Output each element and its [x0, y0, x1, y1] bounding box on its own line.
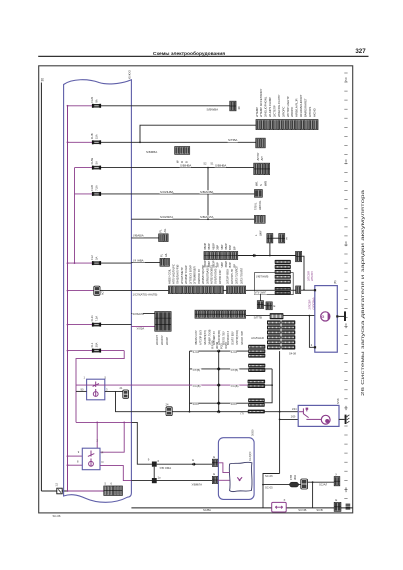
svg-text:А/СНD: А/СНD: [312, 108, 316, 117]
connector row1 end: [230, 101, 236, 111]
svg-text:У/ВМЛА: У/ВМЛА: [192, 483, 203, 487]
ignition internal wires: [218, 463, 230, 481]
svg-text:РОЛ: РОЛ: [220, 343, 224, 349]
fuse FL/В 7,5А wire: [75, 193, 97, 195]
svg-text:2/ТЕМР: 2/ТЕМР: [255, 107, 259, 117]
black code box row290: [275, 287, 291, 291]
svg-text:У/С(В): У/С(В): [231, 384, 239, 388]
svg-text:S-СА: S-СА: [231, 350, 238, 354]
svg-text:FL/R: FL/R: [90, 97, 94, 103]
svg-text:S/ОЛ: S/ОЛ: [231, 402, 238, 406]
fuse FL2 5А wire: [68, 262, 97, 264]
drop to ground bus: [312, 482, 314, 508]
svg-text:SС-06: SС-06: [265, 474, 273, 478]
pin on mid wire: [252, 254, 256, 257]
pin row У/С(В): [217, 383, 221, 386]
svg-text:30: 30: [41, 78, 45, 82]
wire ground feed bottom-left: [41, 490, 103, 492]
svg-text:9А: 9А: [94, 99, 98, 102]
wire row6 U/VABIA: [131, 237, 158, 239]
header rule: [38, 55, 368, 57]
unit outline box: [255, 273, 294, 295]
svg-text:Е: Е: [286, 236, 288, 240]
wire starter solenoid line: [131, 411, 298, 413]
connector after fuse: [301, 479, 308, 489]
svg-text:1/СЛI(АТО)-АА(ГВ): 1/СЛI(АТО)-АА(ГВ): [133, 292, 158, 296]
svg-text:2/ПСВЛ: 2/ПСВЛ: [310, 271, 314, 281]
svg-text:Е: Е: [213, 472, 215, 476]
svg-text:SС/ВА: SС/ВА: [203, 508, 211, 512]
svg-text:ЗВОР: ЗВОР: [203, 243, 207, 250]
svg-text:S/ВIНВА: S/ВIНВА: [180, 163, 191, 167]
svg-text:2/СТЕПР: 2/СТЕПР: [273, 105, 277, 117]
svg-text:У/ВАБIА: У/ВАБIА: [133, 234, 144, 238]
svg-text:SС-05: SС-05: [265, 485, 273, 489]
wire to grid lower purple: [131, 325, 154, 327]
svg-text:АIRВ/LА RLJR: АIRВ/LА RLJR: [295, 99, 299, 118]
wire generator excite drop: [309, 316, 314, 348]
secondary purple bus: [74, 168, 76, 264]
black code boxes row S-СА: [248, 345, 265, 349]
fuse FL/В 15А wire: [68, 141, 97, 143]
relay R2 box: [82, 448, 100, 470]
svg-text:S/ОZIНВА: S/ОZIНВА: [160, 190, 173, 194]
svg-text:(В): (В): [333, 280, 337, 284]
svg-text:2/НЕLIОРНОNL: 2/НЕLIОРНОNL: [264, 96, 268, 117]
svg-text:S/ТIВА: S/ТIВА: [228, 138, 237, 142]
svg-text:5А: 5А: [94, 256, 98, 259]
svg-text:R: R: [102, 451, 104, 455]
svg-text:З/НЗВЛ(ЗЛ): З/НЗВЛ(ЗЛ): [203, 330, 207, 345]
svg-text:S4-08: S4-08: [289, 352, 296, 356]
svg-text:Е: Е: [274, 304, 276, 308]
diagram frame: [39, 66, 353, 513]
svg-text:30: 30: [237, 106, 241, 110]
wire starter main feed: [280, 418, 299, 420]
connector row3 end: [254, 163, 270, 174]
connector grid mid: [155, 312, 171, 332]
fuse FL21 7,5А: [92, 323, 101, 327]
svg-text:2/СТОР LIGНТР: 2/СТОР LIGНТР: [286, 96, 290, 117]
svg-text:G: G: [321, 315, 324, 319]
fuse FL/R 9А: [92, 104, 101, 108]
accessory component ACV: [94, 286, 100, 295]
wire row2 S/TIVA: [131, 141, 256, 143]
svg-text:FL: FL: [160, 253, 164, 257]
svg-text:2/СОЛУ: 2/СОЛУ: [160, 335, 164, 345]
wire between pair E: [273, 237, 279, 239]
svg-text:2/RОРС: 2/RОРС: [281, 107, 285, 117]
svg-text:SС/ЧБ: SС/ЧБ: [298, 508, 306, 512]
svg-text:А/L: А/L: [163, 228, 167, 233]
wire row7 U/I INVA: [131, 262, 160, 264]
svg-text:S/ЧБ: S/ЧБ: [336, 398, 340, 404]
right ruler ticks: [344, 73, 347, 498]
wire row5 S/VLAOLA: [131, 218, 254, 220]
svg-text:Схемы электрооборудования: Схемы электрооборудования: [153, 50, 225, 57]
svg-text:Я R.90: Я R.90: [211, 340, 215, 349]
svg-text:ВЗР: ВЗР: [228, 262, 232, 267]
svg-text:FL/W: FL/W: [90, 158, 94, 165]
svg-text:2/ПСВЯ: 2/ПСВЯ: [307, 300, 311, 310]
wire relay R1 through: [76, 384, 131, 386]
terminal-30 bus wire: [40, 83, 42, 492]
wire alternator L line: [246, 315, 315, 317]
fuse FL/R 9А wire: [68, 105, 97, 107]
component 24 on solenoid line: [166, 407, 172, 416]
svg-text:У/ЛЗА: У/ЛЗА: [137, 327, 145, 331]
svg-text:7,5А: 7,5А: [94, 316, 98, 322]
fuse FL/W 5А wire: [75, 167, 97, 169]
ignition switch box outline: [218, 438, 254, 500]
svg-text:W/L: W/L: [255, 181, 259, 186]
mid connector strip 2x8: [204, 252, 238, 260]
wire row У/Т(В): [190, 368, 249, 370]
svg-text:А/ТЛУ: А/ТЛУ: [256, 152, 260, 160]
svg-text:ЗВ2Р: ЗВ2Р: [224, 243, 228, 250]
svg-text:2/ЛЗ/Р ВОХ: 2/ЛЗ/Р ВОХ: [225, 269, 229, 284]
fusible link on bottom-left wire: [57, 488, 62, 494]
svg-text:SС/В: SС/В: [316, 508, 322, 512]
relay R1 symbol: [93, 382, 99, 397]
svg-text:30/50: 30/50: [250, 429, 254, 436]
aux connector strip row290: [227, 286, 246, 294]
svg-text:FL1: FL1: [90, 342, 94, 347]
junction link vertical: [153, 467, 155, 478]
wire relay R2 top feed: [96, 422, 98, 448]
svg-text:А/Л РО5 ЛУ: А/Л РО5 ЛУ: [230, 269, 234, 284]
wire ignition IG1: [157, 463, 213, 465]
relay R1 box: [87, 379, 105, 400]
svg-text:Т/SVL: Т/SVL: [254, 202, 258, 210]
svg-text:АСV: АСV: [100, 289, 104, 295]
svg-text:А/ГЛО СЗР: А/ГЛО СЗР: [218, 270, 222, 284]
svg-text:ЧВЗР: ЧВЗР: [211, 243, 215, 250]
svg-text:2/ПСВЯ: 2/ПСВЯ: [306, 271, 310, 281]
ground wire in box bottom: [68, 490, 104, 492]
svg-text:2/09: 2/09: [291, 417, 296, 419]
svg-text:N: N: [102, 460, 104, 464]
ground bus labels: [298, 508, 306, 511]
ignition switch inner wavy block: [229, 462, 252, 491]
svg-text:2/СОР: 2/СОР: [165, 337, 169, 345]
svg-text:30А: 30А: [94, 342, 98, 347]
svg-text:А/СЛ/НАЯ: А/СЛ/НАЯ: [251, 336, 264, 340]
fuse FL1 30А: [92, 349, 101, 353]
svg-text:S/ВIАОЛА: S/ВIАОЛА: [200, 215, 213, 219]
junction square 1: [152, 462, 157, 467]
svg-text:7,5А: 7,5А: [94, 185, 98, 191]
svg-text:ВЗР: ВЗР: [228, 245, 232, 250]
svg-text:S/ВIАОВА: S/ВIАОВА: [200, 190, 213, 194]
wire charge line to generator: [131, 289, 314, 291]
wire accessory relay feed: [68, 290, 98, 292]
top connector strip: [256, 120, 318, 130]
pin row S/ОЛ: [217, 402, 221, 405]
pin row У/Т(В): [217, 367, 221, 370]
connector pair E top: [267, 234, 273, 243]
svg-text:LWY/АL: LWY/АL: [258, 200, 262, 210]
svg-text:А/L: А/L: [164, 252, 168, 257]
svg-text:SС-06: SС-06: [53, 514, 61, 518]
junction L line: [309, 315, 311, 317]
svg-text:30А: 30А: [293, 475, 297, 480]
svg-text:LWY: LWY: [259, 230, 263, 236]
wire relay R2 right-top: [100, 422, 124, 452]
wire row3 S/VINVA: [131, 167, 254, 169]
svg-text:150: 150: [344, 77, 348, 82]
svg-text:2/СООТ: 2/СООТ: [155, 335, 159, 345]
wire pair E drop: [269, 243, 271, 256]
connector grid bottom of box: [104, 486, 113, 495]
svg-text:З/СОЛ ЛУР: З/СОЛ ЛУР: [240, 331, 244, 345]
wire to connector U: [308, 481, 335, 483]
svg-text:У/Т(В): У/Т(В): [193, 368, 201, 372]
svg-text:У/С(В): У/С(В): [193, 384, 201, 388]
svg-text:У/В ОМА: У/В ОМА: [160, 466, 172, 470]
junction bottom-left: [67, 490, 69, 492]
wire SC-06 routing: [263, 474, 280, 508]
fuse FL/В 7,5А: [92, 192, 101, 196]
svg-text:SС/АЛ: SС/АЛ: [319, 483, 327, 487]
svg-text:100: 100: [344, 487, 348, 492]
fuse-relay box J/B outline: [64, 80, 132, 503]
svg-text:А/ТСRS: А/ТСRS: [308, 107, 312, 117]
junction node row3: [207, 167, 209, 169]
wire ignition IG2: [131, 480, 212, 482]
wire ignition feed L: [131, 422, 152, 464]
svg-text:ЗЛ/ТР(ЗЛО): ЗЛ/ТР(ЗЛО): [235, 330, 239, 345]
starter ground bar: [345, 415, 347, 424]
connector row6: [159, 234, 168, 242]
svg-text:ЗВ4Р: ЗВ4Р: [207, 243, 211, 250]
wire relay R2 contact out: [100, 466, 131, 481]
svg-text:2/04: 2/04: [292, 409, 297, 411]
pin row S-СА: [217, 349, 221, 352]
svg-text:327: 327: [355, 48, 366, 55]
svg-text:ЗОЛУ: ЗОЛУ: [224, 342, 228, 349]
fuse FL2 5А: [92, 261, 101, 265]
wire row4 S/OZINVA: [131, 193, 254, 195]
svg-text:Ю/ЮО: Ю/ЮО: [128, 69, 132, 79]
svg-text:У/ВТIНУВ: У/ВТIНУВ: [256, 275, 269, 279]
svg-text:S/ВIНВА: S/ВIНВА: [215, 163, 226, 167]
svg-text:ЗВ2Р: ЗВ2Р: [224, 261, 228, 268]
svg-text:FL/В: FL/В: [90, 133, 94, 139]
black code box L line: [270, 313, 284, 319]
svg-text:Е: Е: [335, 498, 337, 502]
svg-text:130: 130: [344, 241, 348, 246]
fuse FL1 30A routing corner: [76, 351, 124, 423]
svg-text:А/ТЗЛР ВУЗ: А/ТЗЛР ВУЗ: [198, 330, 202, 345]
black code boxes row У/Т(В): [248, 364, 265, 368]
wire mid strip to right: [238, 255, 296, 257]
stub pair E lower: [259, 294, 261, 301]
wire ignition feed purple inside box: [76, 421, 131, 423]
svg-text:S/ПТВ: S/ПТВ: [254, 316, 262, 320]
generator box outline: [315, 286, 338, 353]
svg-text:FL: FL: [159, 229, 163, 233]
svg-text:ВР: ВР: [232, 246, 236, 250]
wire drop from connector mid right: [302, 256, 304, 290]
svg-text:S/ЛЗАЛА: S/ЛЗАЛА: [133, 312, 145, 316]
wire generator to battery: [338, 315, 344, 317]
right ruler ground stack mark: [346, 504, 351, 509]
svg-text:2/ЛЗ ГЛУ/ЛЛ: 2/ЛЗ ГЛУ/ЛЛ: [239, 268, 243, 284]
svg-text:FL21: FL21: [90, 315, 94, 322]
branch wire row 125: [140, 125, 256, 142]
svg-text:ГЛ: ГЛ: [241, 412, 244, 416]
svg-text:2/RDРС: 2/RDРС: [290, 107, 294, 117]
connector 21: [123, 390, 129, 398]
svg-text:ЧВР: ЧВР: [220, 262, 224, 268]
svg-text:1о: 1о: [158, 476, 162, 480]
battery terminal bar: [344, 311, 346, 321]
connector row2 end: [256, 138, 265, 148]
ignition switch contact symbol: [237, 477, 242, 480]
connector row4 end: [255, 190, 263, 198]
wire row S-СА: [190, 350, 249, 352]
svg-text:ЗВР: ЗВР: [216, 245, 220, 250]
svg-text:У/Т(В): У/Т(В): [231, 368, 239, 372]
pin on IG1 wire: [192, 463, 196, 466]
connector pair E lower: [257, 301, 263, 309]
labels row290 right: [254, 291, 266, 294]
wire row S/ОЛ: [190, 402, 249, 404]
black code boxes row S/ОЛ: [248, 398, 265, 402]
ground bus: [131, 507, 352, 509]
connector row7: [160, 258, 169, 266]
svg-text:S/БМВА: S/БМВА: [146, 150, 157, 154]
gateway component on ground bus: [272, 502, 287, 512]
wire relay R2 left pins: [68, 455, 83, 457]
vertical bus B: [218, 351, 220, 412]
svg-text:У/I IНВА: У/I IНВА: [133, 258, 144, 262]
svg-text:S/ОЛ: S/ОЛ: [193, 402, 200, 406]
wire relay R1 contact to connector 21: [105, 390, 123, 392]
svg-text:Е: Е: [213, 455, 215, 459]
svg-text:У: У: [335, 472, 337, 476]
svg-text:26 Системы запуска двигателя и: 26 Системы запуска двигателя и зарядки а…: [360, 189, 365, 396]
svg-text:2/DЕFОG СLОТР: 2/DЕFОG СLОТР: [277, 94, 281, 117]
junction square 2: [152, 478, 157, 483]
svg-text:S: S: [259, 184, 263, 186]
wire connector 21 down to starter line: [116, 391, 132, 411]
starter motor symbol: [321, 415, 330, 424]
svg-text:FL2: FL2: [90, 255, 94, 260]
fuse F7B 30A: [290, 482, 299, 487]
svg-text:ОЗ/ЛЛ ВЗУ: ОЗ/ЛЛ ВЗУ: [231, 331, 235, 345]
svg-text:ЗВОЛ2 СЛУ: ЗВОЛ2 СЛУ: [194, 330, 198, 345]
svg-text:140: 140: [344, 159, 348, 164]
connector U: [334, 477, 340, 486]
svg-text:52: 52: [204, 162, 207, 166]
relay R2 symbol: [88, 451, 94, 467]
svg-text:А/Т: А/Т: [260, 156, 264, 161]
black code stack 1: [275, 260, 291, 264]
vertical link wire x208: [207, 168, 209, 220]
generator symbol G: [321, 312, 330, 321]
vertical bus C2: [279, 351, 281, 473]
starter solenoid symbol: [299, 408, 312, 419]
black code boxes solenoid row: [248, 410, 265, 414]
svg-text:ВАIRЕ/RНRЕТ: ВАIRЕ/RНRЕТ: [304, 98, 308, 117]
svg-text:15А: 15А: [94, 134, 98, 139]
svg-text:2/ТЕМР АССЕSSОRУ: 2/ТЕМР АССЕSSОRУ: [259, 88, 263, 117]
svg-text:S/ВWВА: S/ВWВА: [207, 108, 219, 112]
svg-text:120: 120: [344, 323, 348, 328]
svg-text:S-СА: S-СА: [193, 350, 200, 354]
svg-text:FL/В: FL/В: [90, 185, 94, 191]
svg-text:41-3(2)0: 41-3(2)0: [249, 451, 252, 461]
connector row290 right: [296, 286, 301, 294]
svg-text:2/LАIРS СНIМР: 2/LАIРS СНIМР: [268, 97, 272, 117]
starter box outline: [298, 405, 339, 426]
fuse FL1 30А wire: [68, 350, 125, 352]
svg-text:ЧВР: ЧВР: [220, 244, 224, 250]
svg-text:S/ОZЗIЛА: S/ОZЗIЛА: [160, 215, 173, 219]
wire to grid upper: [131, 312, 154, 314]
svg-text:Е: Е: [192, 458, 194, 462]
svg-text:2/ЛЗ Г2(ЛЛО): 2/ЛЗ Г2(ЛЛО): [235, 267, 239, 284]
svg-text:АСНR/АСНRОRТ: АСНR/АСНRОRТ: [299, 94, 303, 117]
svg-text:51: 51: [211, 162, 214, 166]
svg-text:5А: 5А: [94, 161, 98, 164]
wire row1 S/BWBA: [131, 105, 230, 107]
connector E on ground bus: [334, 502, 341, 511]
ignition pin box 1: [212, 459, 217, 466]
svg-text:110: 110: [344, 405, 348, 410]
fuse FL/В 15А: [92, 140, 101, 144]
connector row5 end: [255, 215, 266, 223]
vertical bus A: [189, 351, 191, 412]
wire row У/С(В): [131, 384, 247, 386]
svg-text:30ЛМ: 30ЛМ: [215, 341, 219, 349]
svg-text:Х: Х: [284, 498, 286, 502]
svg-text:1,5: 1,5: [55, 482, 59, 486]
main connector strip row290: [169, 286, 224, 294]
black code boxes row У/С(В): [248, 380, 266, 384]
inline connector block row2: [175, 147, 190, 155]
purple feed bus: [67, 106, 69, 491]
fuse FL21 7,5А wire: [68, 324, 97, 326]
generator pin squares: [314, 289, 316, 291]
black code cluster 2: [267, 320, 281, 324]
wire starter to ground: [339, 418, 345, 420]
wire fuse F7B row: [263, 484, 301, 486]
svg-text:W/В: W/В: [264, 181, 268, 186]
fuse FL/W 5А: [92, 166, 101, 170]
mid connector strip2: [195, 310, 246, 318]
vertical link C1: [263, 369, 272, 403]
ignition pin box 2: [212, 476, 217, 483]
connector mid right: [296, 251, 302, 261]
